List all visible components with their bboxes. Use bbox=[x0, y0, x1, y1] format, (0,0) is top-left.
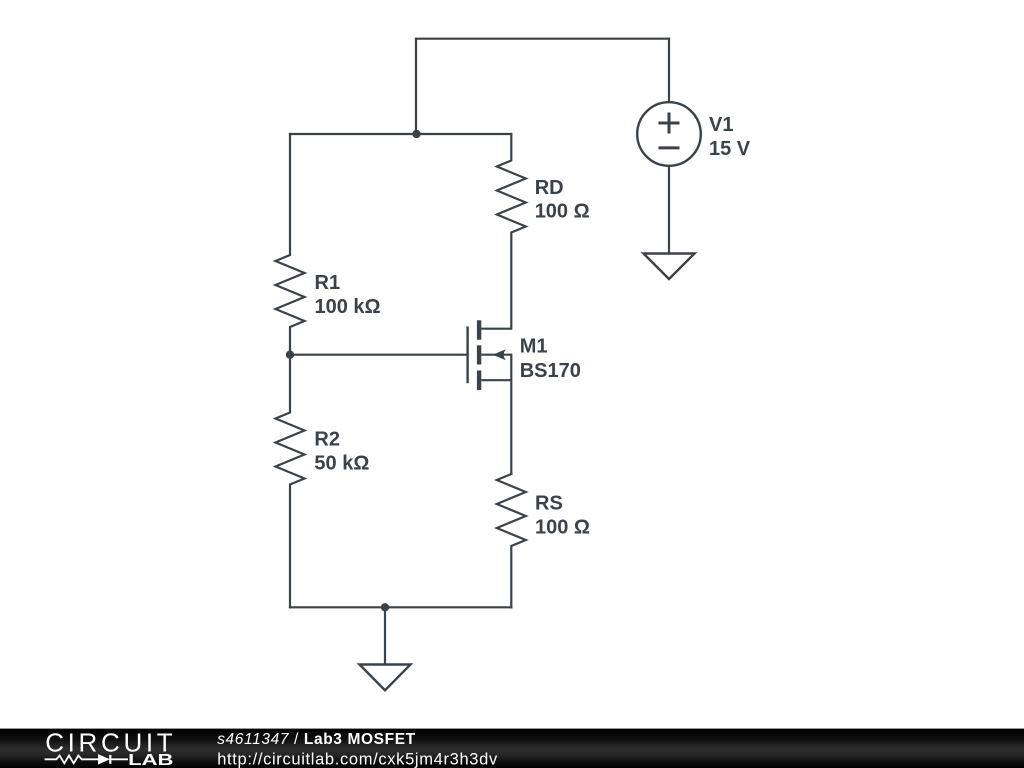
resistor R1 bbox=[276, 134, 305, 355]
svg-text:BS170: BS170 bbox=[520, 360, 581, 382]
svg-text:LAB: LAB bbox=[128, 752, 173, 768]
ground (below V1) bbox=[644, 254, 695, 280]
wire top rail bbox=[416, 38, 669, 40]
svg-text:R2: R2 bbox=[314, 428, 340, 450]
footer bar bbox=[0, 729, 1024, 768]
node junction dot (gate node) bbox=[286, 351, 294, 359]
resistor RD bbox=[497, 134, 526, 329]
transistor M1 (NMOS) bbox=[468, 320, 512, 390]
wire node rail (VDD node to RD) bbox=[290, 133, 511, 135]
svg-text:RD: RD bbox=[535, 177, 564, 199]
node junction dot (VDD / top of R1) bbox=[412, 130, 420, 138]
node junction dot (bottom rail / ground) bbox=[381, 603, 389, 611]
svg-text:RS: RS bbox=[535, 493, 563, 515]
svg-text:M1: M1 bbox=[520, 336, 548, 358]
wire left drop from top rail to node rail bbox=[415, 39, 417, 134]
ground (bottom rail) bbox=[360, 665, 411, 691]
wire MOSFET source down lead bbox=[510, 355, 512, 474]
wire V1 top lead bbox=[668, 39, 670, 103]
svg-text:100 kΩ: 100 kΩ bbox=[315, 296, 381, 318]
wire bottom rail bbox=[290, 606, 511, 608]
svg-text:15 V: 15 V bbox=[709, 138, 751, 160]
svg-text:100 Ω: 100 Ω bbox=[535, 201, 590, 223]
resistor RS bbox=[497, 474, 526, 607]
svg-text:50 kΩ: 50 kΩ bbox=[314, 452, 369, 474]
resistor R2 bbox=[276, 355, 305, 608]
CircuitLab logo resistor-diode squiggle bbox=[45, 755, 128, 764]
svg-text:http://circuitlab.com/cxk5jm4r: http://circuitlab.com/cxk5jm4r3h3dv bbox=[217, 750, 498, 768]
wire ground stub bbox=[384, 607, 386, 664]
svg-text:s4611347 / Lab3 MOSFET: s4611347 / Lab3 MOSFET bbox=[217, 731, 416, 748]
svg-text:R1: R1 bbox=[315, 272, 341, 294]
wire V1 bottom lead bbox=[668, 166, 670, 254]
svg-text:V1: V1 bbox=[709, 114, 733, 136]
wire gate rail bbox=[290, 354, 468, 356]
voltage source V1 bbox=[637, 102, 701, 166]
svg-text:100 Ω: 100 Ω bbox=[535, 517, 590, 539]
